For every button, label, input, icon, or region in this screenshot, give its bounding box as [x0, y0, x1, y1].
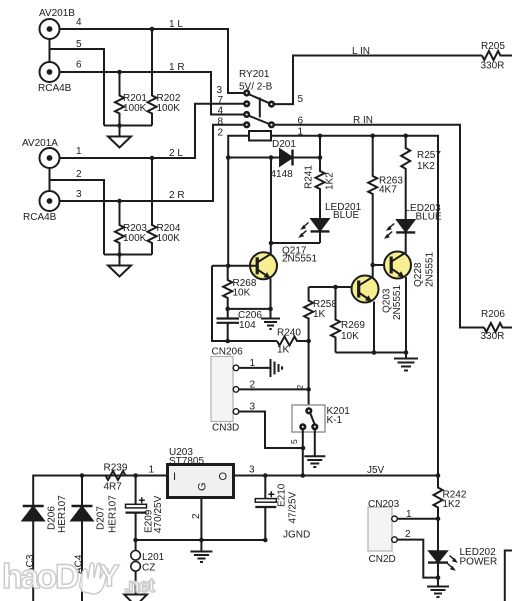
svg-text:2: 2: [405, 529, 411, 540]
node junction base/R268: [226, 264, 231, 269]
svg-text:I: I: [173, 471, 176, 483]
wire coil pin2 to Q217 base column: [228, 136, 249, 266]
connector CN206 pin 2: [233, 387, 239, 393]
svg-text:RCA4B: RCA4B: [23, 212, 57, 223]
svg-text:1: 1: [406, 509, 412, 520]
svg-text:.net: .net: [124, 576, 155, 597]
svg-text:R241: R241: [304, 165, 315, 189]
node junction E210 top: [263, 473, 268, 478]
svg-text:5: 5: [298, 94, 304, 105]
wire Q228 emitter drop: [405, 277, 407, 353]
svg-text:2: 2: [191, 513, 202, 519]
relay contact K201 body: [292, 405, 325, 432]
svg-text:100K: 100K: [123, 233, 147, 244]
diode D206 HER107: [23, 506, 44, 601]
node junction collector node: [269, 241, 274, 246]
resistor R241 1K2: [316, 136, 325, 219]
svg-text:RY201: RY201: [239, 69, 270, 80]
wire JGND rail: [136, 539, 266, 541]
svg-text:1K2: 1K2: [443, 499, 461, 510]
wire Q217 emitter: [270, 279, 272, 309]
svg-text:R239: R239: [104, 463, 128, 474]
resistor R242 1K2: [434, 476, 443, 519]
svg-text:2 L: 2 L: [169, 148, 183, 159]
relay contact K201 common pin: [307, 409, 312, 414]
svg-text:8: 8: [218, 117, 224, 128]
connector AV201B jack 2 (RCA): [40, 62, 60, 82]
resistor R201 100K: [115, 72, 124, 126]
resistor R202 100K: [148, 29, 157, 126]
node junction cathode/R241: [318, 155, 323, 160]
svg-text:Q203: Q203: [382, 288, 393, 313]
wire CN203 pin2 to LED202 cathode: [397, 540, 438, 578]
ground (triangle) below R201/R202: [108, 126, 131, 148]
ground (triangle) below R203/R204: [108, 255, 131, 277]
svg-text:JGND: JGND: [283, 530, 310, 541]
resistor R257 1K2: [401, 136, 410, 220]
wire Q228 base: [373, 264, 392, 266]
connector CN203 pin 1: [392, 516, 398, 522]
svg-text:D206: D206: [47, 506, 58, 530]
node junction emitter: [268, 307, 273, 312]
svg-text:6: 6: [298, 116, 304, 127]
connector AV201A jack 2 (RCA): [40, 191, 60, 211]
resistor R203 100K: [115, 201, 124, 255]
svg-text:R257: R257: [417, 150, 441, 161]
transistor Q203 2N5551: [352, 276, 379, 303]
relay RY201 pin 8: [244, 123, 249, 128]
node junction CN206 pin2: [306, 387, 311, 392]
relay RY201 contact pin 5: [269, 102, 274, 107]
svg-text:R240: R240: [277, 328, 301, 339]
svg-text:L201: L201: [142, 552, 165, 563]
wire 2L from AV201A pin1 to relay pin7: [60, 104, 245, 158]
wire 1L from AV201B pin4 to relay pin3: [60, 29, 245, 93]
node junction at ground 1: [117, 123, 122, 128]
svg-text:4148: 4148: [271, 169, 294, 180]
resistor R204 100K: [148, 158, 157, 255]
svg-text:POWER: POWER: [460, 557, 498, 568]
svg-text:BLUE: BLUE: [333, 210, 359, 221]
svg-text:6: 6: [76, 60, 82, 71]
svg-text:1K2: 1K2: [325, 172, 336, 190]
resistor R206 330R: [484, 323, 512, 332]
svg-text:3: 3: [249, 465, 255, 476]
wire CN203 pin1 to R242: [397, 518, 438, 520]
svg-text:K-1: K-1: [327, 415, 343, 426]
wire R268/C206 to emitter ground node: [228, 308, 271, 310]
node junction anode/collector tap: [269, 155, 274, 160]
svg-text:AV201B: AV201B: [39, 8, 75, 19]
node junction R257 top: [403, 134, 408, 139]
svg-text:5: 5: [76, 39, 82, 50]
node junction 1L/R202: [150, 27, 155, 32]
svg-text:CZ: CZ: [142, 563, 155, 574]
relay contact K201 pin right: [313, 425, 318, 430]
svg-text:3: 3: [76, 189, 82, 200]
svg-text:4K7: 4K7: [379, 185, 397, 196]
ground (earth) Q217 emitter: [261, 309, 280, 329]
ground (earth) LED202: [427, 578, 449, 597]
ground (signal, rotated) CN206 pin1: [271, 359, 283, 377]
node junction 2R/R203: [117, 199, 122, 204]
relay RY201 pin 3: [244, 91, 249, 96]
resistor R268 10K: [223, 266, 232, 309]
resistor R240 1K: [277, 337, 309, 346]
svg-text:haoD: haoD: [2, 558, 79, 596]
svg-text:CN3D: CN3D: [212, 423, 239, 434]
node junction C206 bottom: [225, 339, 230, 344]
node junction LED202 bottom: [436, 575, 441, 580]
node junction 1R/R201: [117, 70, 122, 75]
wire base branch to R240: [212, 266, 277, 341]
wire R258 column down to K201: [308, 341, 310, 408]
wire pin5 shell to ground: [50, 49, 105, 126]
ground (earth) Q228/Q203 emitters: [394, 353, 418, 371]
svg-text:4R7: 4R7: [104, 482, 123, 493]
svg-text:470/25V: 470/25V: [153, 495, 164, 533]
capacitor C206 104: [217, 309, 240, 341]
wire coil pin1 net: [271, 136, 438, 476]
connector CN203 pin 2: [392, 537, 398, 543]
connector CN203 body: [368, 507, 392, 551]
resistor R239 4R7: [106, 471, 126, 480]
wire anode tap down to collector node: [270, 158, 272, 244]
resistor R258 1K: [304, 287, 313, 341]
node junction R240/R258: [306, 339, 311, 344]
connector CN206 pin 1: [233, 365, 239, 371]
svg-text:R205: R205: [481, 41, 505, 52]
wire D201 anode: [228, 157, 280, 159]
relay RY201 switch arm pole 2: [250, 116, 270, 124]
svg-text:4: 4: [218, 106, 224, 117]
node junction R269 top: [333, 285, 338, 290]
wire Q203 collector: [372, 265, 374, 278]
wire 2R from AV201A pin3 to relay pin8: [60, 125, 245, 201]
wire LED201 to Q217 collector: [271, 242, 320, 244]
svg-text:47/25V: 47/25V: [288, 491, 299, 523]
wire R242 to LED202: [437, 519, 439, 552]
svg-text:10K: 10K: [341, 331, 359, 342]
svg-text:R269: R269: [341, 320, 365, 331]
svg-text:2: 2: [76, 169, 82, 180]
wire pin2 shell to ground: [50, 180, 105, 255]
diode D207 HER107: [72, 476, 93, 601]
LED LED202 POWER: [428, 551, 458, 577]
relay RY201 contact pin 6: [269, 123, 274, 128]
svg-text:1K2: 1K2: [417, 161, 435, 172]
svg-text:2: 2: [218, 128, 224, 139]
node junction pin3/K201: [301, 446, 306, 451]
resistor R263 4K7: [368, 136, 377, 265]
node junction R263 top: [370, 134, 375, 139]
relay contact K201 pin left: [301, 425, 306, 430]
ground (earth) U203 G: [190, 540, 212, 562]
node junction R268 bottom: [225, 307, 230, 312]
node junction diode anode tap: [226, 155, 231, 160]
svg-text:2: 2: [250, 380, 256, 391]
wire R IN from contact 6 to right: [274, 125, 484, 328]
svg-text:3: 3: [250, 402, 256, 413]
wire resistor bottoms: [104, 125, 152, 127]
capacitor E209 470/25V: [126, 476, 147, 541]
svg-text:104: 104: [239, 320, 256, 331]
relay RY201 coil: [249, 131, 271, 141]
relay RY201 pin 7: [244, 102, 249, 107]
ground (triangle) below L201: [124, 595, 147, 601]
diode D201 4148: [280, 150, 320, 166]
svg-text:CN203: CN203: [368, 499, 400, 510]
svg-text:1K: 1K: [313, 309, 326, 320]
wire shell link AV201A: [49, 168, 51, 191]
ground (earth) K201: [304, 456, 325, 467]
svg-text:1: 1: [250, 358, 256, 369]
svg-text:Y: Y: [99, 558, 120, 593]
connector AV201B jack 1 (RCA): [40, 19, 60, 39]
node junction K201 branch on J5V: [301, 473, 306, 478]
svg-text:1 L: 1 L: [169, 19, 183, 30]
wire AC input rail: [33, 476, 167, 507]
svg-text:2: 2: [295, 385, 305, 390]
connector (partial, bottom right corner): [505, 551, 512, 601]
svg-text:330R: 330R: [481, 61, 505, 72]
inductor L201 CZ: [131, 540, 141, 595]
connector AV201A jack 1 (RCA): [40, 148, 60, 168]
connector CN206 body: [211, 357, 233, 422]
svg-text:5V/ 2-B: 5V/ 2-B: [239, 82, 273, 93]
relay RY201 switch arm pole 1: [250, 95, 270, 104]
svg-text:BLUE: BLUE: [416, 212, 442, 223]
svg-text:2N5551: 2N5551: [282, 254, 317, 265]
svg-text:ST7805: ST7805: [169, 456, 204, 467]
svg-text:CN2D: CN2D: [369, 554, 396, 565]
node junction R263/Q228 base: [370, 263, 375, 268]
svg-text:J5V: J5V: [367, 465, 385, 476]
svg-text:1: 1: [149, 465, 155, 476]
svg-text:2N5551: 2N5551: [392, 285, 403, 320]
wire Q203 emitter drop: [373, 302, 375, 353]
wire K201 right pin to earth: [314, 430, 316, 457]
wire L IN from contact 5 to R205: [274, 56, 482, 105]
svg-text:100K: 100K: [157, 233, 181, 244]
svg-text:R206: R206: [481, 309, 505, 320]
resistor R205 330R: [482, 51, 512, 60]
transistor Q228 2N5551: [384, 252, 411, 279]
resistor R269 10K: [331, 287, 340, 353]
svg-text:D207: D207: [96, 506, 107, 530]
svg-text:7: 7: [218, 95, 224, 106]
wire resistor bottoms 2: [104, 254, 152, 256]
svg-text:1: 1: [76, 146, 82, 157]
transistor Q217 2N5551: [250, 252, 277, 279]
wire CN206 pin1 to signal ground: [239, 367, 270, 369]
svg-text:5: 5: [289, 439, 299, 444]
relay contact K201 arm: [310, 413, 315, 425]
wire collector drop: [270, 243, 272, 254]
node junction E210 bottom: [263, 538, 268, 543]
wire CN206 pin2 to R258 column: [239, 388, 309, 390]
node junction Q203 emitter: [372, 350, 377, 355]
regulator U203 ST7805: [168, 465, 439, 541]
svg-text:100K: 100K: [123, 103, 147, 114]
svg-text:AV201A: AV201A: [22, 138, 58, 149]
node junction at ground 2: [117, 252, 122, 257]
svg-text:2N5551: 2N5551: [425, 252, 436, 287]
node junction G pin on JGND: [199, 538, 204, 543]
node junction R242/CN203 pin1: [436, 517, 441, 522]
node junction J5V/R242: [436, 473, 441, 478]
svg-text:E210: E210: [277, 483, 288, 507]
svg-text:1 R: 1 R: [169, 62, 185, 73]
watermark haoDY.net: [2, 558, 155, 597]
svg-text:4: 4: [76, 17, 82, 28]
svg-text:O: O: [219, 471, 228, 483]
node junction Q228 emitter: [404, 350, 409, 355]
wire CN206 pin3 to K201: [239, 412, 303, 449]
svg-text:1: 1: [298, 127, 304, 138]
svg-text:L IN: L IN: [352, 46, 370, 57]
svg-text:1K: 1K: [277, 345, 290, 356]
svg-text:HER107: HER107: [57, 495, 68, 533]
capacitor E210 47/25V: [255, 476, 276, 541]
svg-text:2 R: 2 R: [169, 190, 185, 201]
wire shell link AV201B: [49, 39, 51, 62]
LED LED201 BLUE: [298, 219, 329, 243]
svg-text:330R: 330R: [481, 331, 505, 342]
wire 1R from AV201B pin6 to relay pin4: [60, 72, 245, 115]
wire Q217 base: [212, 265, 257, 267]
wire emitter rail to earth: [336, 352, 407, 354]
svg-text:RCA4B: RCA4B: [38, 83, 72, 94]
connector CN206 pin 3: [233, 409, 239, 415]
node junction E209 bottom: [133, 538, 138, 543]
svg-text:G: G: [197, 482, 209, 491]
relay RY201 mechanical link: [259, 98, 261, 118]
node junction 2L/R204: [150, 156, 155, 161]
LED LED203 BLUE: [384, 220, 415, 254]
node junction E209 top: [133, 473, 138, 478]
relay RY201 pin 4: [244, 112, 249, 117]
svg-text:100K: 100K: [157, 103, 181, 114]
node junction D207 top: [80, 473, 85, 478]
svg-text:HER107: HER107: [108, 495, 119, 533]
wire K201 left pin to J5V: [302, 430, 304, 476]
svg-text:CN206: CN206: [212, 347, 244, 358]
svg-text:10K: 10K: [233, 288, 251, 299]
node junction R241 top: [318, 134, 323, 139]
svg-text:R IN: R IN: [353, 115, 373, 126]
wire Q203 base: [309, 286, 359, 288]
svg-text:Q228: Q228: [413, 262, 424, 287]
svg-text:D201: D201: [272, 139, 296, 150]
